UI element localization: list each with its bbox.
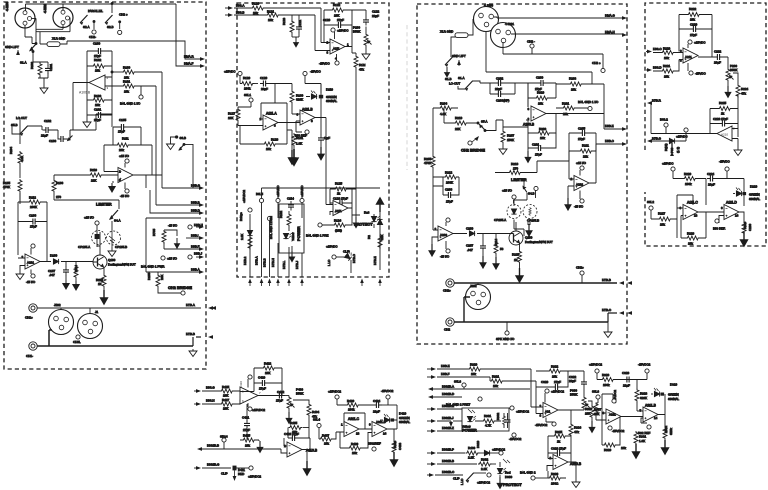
resistor R327 [585,403,606,421]
off-page H301B.D1 [428,392,462,399]
terminal R32 REF [638,418,651,435]
resistor R433 [387,429,402,458]
resistor R120 [234,2,321,15]
ground P430 [286,412,291,423]
svg-text:B50K: B50K [353,30,360,34]
supply +15VDC2 G [510,406,530,414]
resistor R101 [122,80,156,205]
svg-text:620K: 620K [640,396,647,400]
terminal S8L4 [313,417,321,439]
svg-text:22µF: 22µF [373,409,380,413]
svg-text:BIG2REF: BIG2REF [368,441,381,445]
terminal CH2- [527,39,535,54]
label BAL GND 2 PRE b [520,470,548,480]
wire HMA.H [511,33,624,35]
svg-text:R430: R430 [468,446,476,450]
svg-text:H8B.E: H8B.E [441,364,450,368]
off-page H301B.B2 [427,459,477,466]
svg-text:J102: J102 [54,303,61,307]
resistor R111 [104,127,152,175]
resistor R201 [556,101,588,115]
svg-text:27µF: 27µF [259,386,266,390]
svg-text:H7B.H: H7B.H [271,258,275,267]
svg-text:2.2K: 2.2K [468,456,474,460]
svg-text:22K: 22K [91,179,96,183]
off-page HMA.G [605,13,627,20]
svg-text:R323: R323 [640,391,648,395]
labels mid vertical [664,143,680,156]
svg-text:CH1+: CH1+ [25,316,33,320]
svg-text:10k: 10k [540,136,545,140]
svg-text:100Ω: 100Ω [551,481,559,485]
resistor R207 [501,127,515,147]
svg-text:D110: D110 [326,87,333,91]
capacitor C422 [276,390,289,403]
junction dot [111,3,113,5]
svg-text:C423 27µF: C423 27µF [284,432,299,436]
svg-text:C103: C103 [49,139,57,143]
off-page HMA.F [184,62,205,68]
XLR J202 [466,283,491,310]
resistor R105 [3,179,22,204]
svg-text:+15VDC2: +15VDC2 [516,410,529,414]
svg-text:R128: R128 [271,137,279,141]
svg-text:H0B.I: H0B.I [191,234,199,238]
optocoupler OP105.A [78,229,106,249]
svg-text:CH2 +: CH2 + [119,13,128,17]
wire A310A in/out [531,369,584,414]
terminal S8L2 [647,200,654,219]
wire A410 net [240,383,282,396]
svg-text:+15VDC2: +15VDC2 [248,474,261,478]
resistor R322 [536,364,584,378]
svg-text:A311.B: A311.B [645,403,657,407]
resistor R328 [597,373,624,387]
svg-text:XLR GND: XLR GND [440,29,454,33]
resistor R216 [495,161,569,175]
resistor R114 [73,262,79,290]
resistor R130 [290,84,304,115]
off-page H0B.E [604,124,627,131]
capacitor C114 [287,197,294,211]
svg-text:R301: R301 [484,414,492,418]
XLR connector J201 [491,22,516,48]
svg-text:10k: 10k [552,374,557,378]
svg-text:HTB.B: HTB.B [186,332,195,336]
svg-text:C202: C202 [496,76,504,80]
wire A311A loops [602,394,643,445]
wire HTB.B rail [454,282,617,284]
svg-text:260K: 260K [30,205,37,209]
svg-text:27µF: 27µF [690,33,697,37]
svg-text:20µF: 20µF [714,60,721,64]
svg-text:C102: C102 [44,119,52,123]
jack CH1- [26,342,37,358]
svg-text:CH2 BRIDGE: CH2 BRIDGE [461,147,485,152]
wire Q100 [93,232,100,262]
svg-text:10k: 10k [621,446,626,450]
wire net 54 [503,42,603,68]
svg-text:CH2+: CH2+ [576,265,584,269]
ground R307 [589,421,594,432]
svg-text:HTB.B: HTB.B [602,278,611,282]
ground big arrow left [289,148,296,164]
svg-text:R328: R328 [602,373,610,377]
svg-text:+15VDC2: +15VDC2 [477,480,490,484]
svg-text:A31: A31 [545,409,551,413]
svg-text:10k: 10k [352,451,357,455]
svg-text:100k: 100k [244,86,251,90]
svg-text:100k: 100k [685,182,692,186]
off-page HTB.B [186,332,213,346]
svg-text:C129: C129 [260,76,268,80]
off-page H0B.I [186,234,204,240]
wire r102 c101 [38,62,48,86]
resistor R100 [122,66,162,80]
svg-text:20µF: 20µF [261,87,268,91]
svg-text:A211: A211 [685,55,692,59]
svg-text:C220: C220 [690,22,698,26]
ground big arrow E [741,232,748,246]
svg-text:2.2K: 2.2K [481,467,487,471]
op-amp A102 [118,168,133,183]
capacitor C102 [41,119,58,138]
svg-text:D300: D300 [505,475,513,479]
resistor R220 [653,46,683,59]
wire A101 in [18,258,25,272]
svg-text:A203: A203 [440,233,447,237]
op-amp A101 [22,254,41,269]
svg-text:R1M: R1M [359,63,366,67]
resistor R437 [319,432,344,446]
svg-text:H0B.J: H0B.J [194,252,203,256]
capacitor C122 [352,10,380,26]
svg-text:4.8K: 4.8K [20,156,24,162]
terminal CH0 [73,335,81,344]
wire HTB.C rail [454,297,608,322]
svg-text:-15 I/O: -15 I/O [440,254,450,258]
svg-text:R229: R229 [684,172,692,176]
svg-text:A202: A202 [576,182,583,186]
XLR GND stub [440,19,474,37]
supply +15VDC2 right [589,362,602,379]
svg-text:+15VDC: +15VDC [326,245,338,249]
svg-text:C420: C420 [258,375,266,379]
svg-text:OP205.B: OP205.B [527,218,539,222]
svg-text:R210: R210 [455,116,463,120]
svg-text:+15 I/O: +15 I/O [84,215,95,219]
supply +15VDC2 F2 [328,389,341,405]
svg-text:B8L5: B8L5 [256,192,263,196]
capacitor C220 [679,22,712,36]
capacitor C106 [18,213,47,228]
svg-text:R228: R228 [687,231,695,235]
capacitor C320 [536,371,568,390]
supply A101 - [26,270,36,285]
svg-text:Darlington/NPN BUT: Darlington/NPN BUT [525,240,553,244]
svg-text:R203: R203 [539,127,547,131]
svg-text:R214: R214 [494,238,498,246]
svg-text:R302: R302 [481,457,489,461]
terminal CH2- [89,21,96,40]
svg-text:10k: 10k [95,69,100,73]
svg-text:27µF: 27µF [243,428,250,432]
supply +15VDC lower [224,69,242,83]
wire A210 out [651,129,738,149]
svg-text:47k: 47k [574,430,579,434]
supply opto [84,215,99,229]
off-page HTB.A [186,303,216,310]
svg-text:H301B.D: H301B.D [442,392,455,396]
svg-text:150K: 150K [507,138,514,142]
svg-text:CH2 -: CH2 - [527,39,535,43]
svg-text:LIMITER: LIMITER [96,201,112,206]
svg-text:H88.D: H88.D [653,65,662,69]
capacitor C107 [48,262,69,289]
transistor Q100 [93,255,136,269]
svg-text:R429: R429 [347,399,355,403]
svg-text:4 J100: 4 J100 [5,2,9,11]
op-amp A111.C [680,200,699,219]
svg-text:10K: 10K [228,116,233,120]
svg-text:H7B.A: H7B.A [255,256,259,265]
svg-text:270: 270 [56,195,61,199]
capacitor C101 [45,62,53,78]
capacitor C420 [254,368,282,390]
capacitor C328 [622,371,647,387]
svg-text:D410: D410 [399,411,407,415]
LED D319 [651,382,679,400]
resistor R425b [240,432,259,447]
XLR connector J200 [474,3,499,31]
off-page H88.C [646,47,662,53]
wire xlr pins [25,18,70,44]
svg-text:A111.A: A111.A [266,112,277,116]
svg-text:OP105.A: OP105.A [78,245,90,249]
resistor R221 [653,60,683,79]
supply A101 + [31,244,35,255]
svg-text:HMA.G: HMA.G [605,13,616,17]
capacitor C222 [698,49,728,64]
svg-text:+15VDC: +15VDC [662,161,674,165]
svg-text:S2.A: S2.A [83,25,90,29]
svg-text:1.8K: 1.8K [296,141,302,145]
svg-text:2k: 2k [721,112,725,116]
svg-text:C422: C422 [277,390,285,394]
pot P100 [353,26,372,52]
svg-text:+15VDC: +15VDC [694,40,706,44]
op-amp A310.B [550,455,582,470]
svg-text:-15 I/O: -15 I/O [168,224,178,228]
supply -15VDC boxE [719,159,731,178]
svg-text:L LO: L LO [460,478,464,485]
svg-text:R224: R224 [741,87,749,91]
terminal col1 [242,190,252,213]
svg-text:22µF: 22µF [495,87,502,91]
svg-text:H88.C: H88.C [653,47,662,51]
resistor R325 [548,430,571,444]
svg-text:R215: R215 [512,252,520,256]
svg-text:CLIP: CLIP [343,250,350,254]
off-page H88.B [225,11,244,17]
svg-text:10k: 10k [538,101,543,105]
off-page H0B.A [191,268,204,274]
off-page HTB.C [602,308,632,322]
terminal R124 [318,223,322,227]
ground P100 [362,52,370,60]
op-amp A410.A [239,381,261,404]
supply -15VDC2 F [381,389,394,405]
terminal CH2 BRIDGE [168,285,192,295]
capacitor C103 [49,130,96,143]
op-amp A211 [680,48,698,63]
svg-text:10K: 10K [334,14,339,18]
capacitor C120 [323,18,352,28]
svg-text:H301B.B: H301B.B [207,443,219,447]
svg-text:C207: C207 [466,243,474,247]
svg-text:10k: 10k [571,87,576,91]
svg-text:H7B.E: H7B.E [373,256,377,265]
svg-text:27µF: 27µF [276,398,283,402]
supply A102 + [125,159,129,168]
resistor R214 [494,234,504,258]
off-page H301B.J [427,416,462,427]
svg-text:S4.B: S4.B [528,191,535,195]
svg-text:C114: C114 [287,197,294,201]
resistor R229 [673,172,706,186]
input board CH1 dashed border [4,2,206,369]
svg-text:HMA.R: HMA.R [184,55,195,59]
svg-text:C230: C230 [748,223,752,231]
svg-text:R(13): R(13) [664,143,668,151]
svg-text:H301B.Z: H301B.Z [442,426,454,430]
SECTION-C [417,3,632,344]
svg-text:+15VDC2: +15VDC2 [328,389,341,393]
LO CUT switch [449,76,480,91]
wire A410B [281,438,310,453]
svg-text:H0B.B: H0B.B [191,201,200,205]
terminal CH2+ [118,13,128,35]
resistor R205 [424,155,435,177]
ground A202 [565,186,574,210]
LO CUT switch S5.B [11,116,42,136]
resistor R429 [337,399,375,412]
svg-text:4 J200: 4 J200 [484,3,493,7]
op-amp A203 lower [435,226,454,241]
resistor R110 [54,168,118,183]
wire HMA.G [494,17,624,18]
ground R115 [101,290,108,304]
resistor R227 [651,211,677,226]
wire A111C loops [677,195,724,238]
terminal +15 I/O [161,252,204,261]
svg-text:R331: R331 [639,434,647,438]
resistor R326 [548,471,566,485]
svg-text:10k: 10k [266,147,271,151]
wire signal rail [67,4,201,66]
svg-text:(10k): (10k) [335,228,342,232]
ground R425b [257,440,262,452]
svg-text:S8L3: S8L3 [592,389,599,393]
ground A210 [734,148,742,156]
svg-text:PARALLEL: PARALLEL [88,9,103,13]
svg-text:C101: C101 [49,63,53,71]
svg-text:H88.A: H88.A [236,4,244,8]
svg-text:1.8K: 1.8K [639,439,645,443]
resistor R428 [340,433,368,455]
svg-text:R203: R203 [569,76,577,80]
ground A101 [16,272,24,280]
switch CLIP G [453,473,491,485]
resistor R102 [30,61,42,78]
terminal S8L3 [592,389,600,403]
terminal col3 [276,198,280,202]
bottom col labels [243,256,377,269]
svg-text:D210: D210 [750,184,758,188]
terminal BAL GND 1 I/O [578,100,599,111]
XLR connector J100 [5,2,35,28]
svg-text:H7B.C: H7B.C [352,253,356,263]
op-amp A310.A [540,403,559,418]
svg-text:R325: R325 [555,430,563,434]
SECTION-A [3,2,216,369]
svg-text:R222: R222 [689,7,697,11]
resistor R210 [444,108,477,131]
svg-text:C200: C200 [466,226,474,230]
svg-text:J202: J202 [470,284,477,288]
switch S2.B [105,15,114,29]
svg-text:CH2: CH2 [444,327,450,331]
supply A311A neg [608,426,625,433]
resistor R202 [528,83,556,105]
terminal CH2+ [592,61,605,73]
svg-text:HTB.A: HTB.A [186,303,195,307]
svg-text:A200.B: A200.B [523,122,535,126]
svg-text:100k: 100k [348,408,355,412]
ground A203 [429,244,435,256]
capacitor C224 [707,172,744,187]
switch S3.B [167,136,194,188]
resistor R132 [279,210,291,231]
supply +15VDC [331,28,349,39]
off-page H301B.A [428,383,530,391]
svg-text:-15VDC2: -15VDC2 [381,389,394,393]
ground R332 [662,440,669,454]
svg-text:B50K: B50K [296,391,303,395]
svg-text:R019: R019 [537,91,545,95]
svg-text:10k: 10k [253,11,258,15]
optocoupler OP105.B [107,230,128,249]
svg-text:HMA.F: HMA.F [184,62,194,66]
svg-text:R327: R327 [585,407,593,411]
svg-text:R212: R212 [445,170,453,174]
svg-text:4 J101: 4 J101 [43,4,47,13]
ground opto [108,247,116,257]
svg-text:R221: R221 [663,64,671,68]
SECTION-DE [645,3,766,246]
terminal SR14 [220,435,228,449]
ground earth CH1 [189,349,197,357]
ground earth CH2 [604,322,612,338]
supply -15VDC [319,54,339,66]
svg-text:R230: R230 [743,221,747,229]
svg-text:H7B.G: H7B.G [652,136,662,140]
svg-text:R434: R434 [312,410,320,414]
svg-text:22µF: 22µF [41,134,48,138]
svg-text:H301B.C: H301B.C [442,470,455,474]
svg-text:CH0L: CH0L [73,340,81,344]
capacitor C123 [330,197,352,206]
